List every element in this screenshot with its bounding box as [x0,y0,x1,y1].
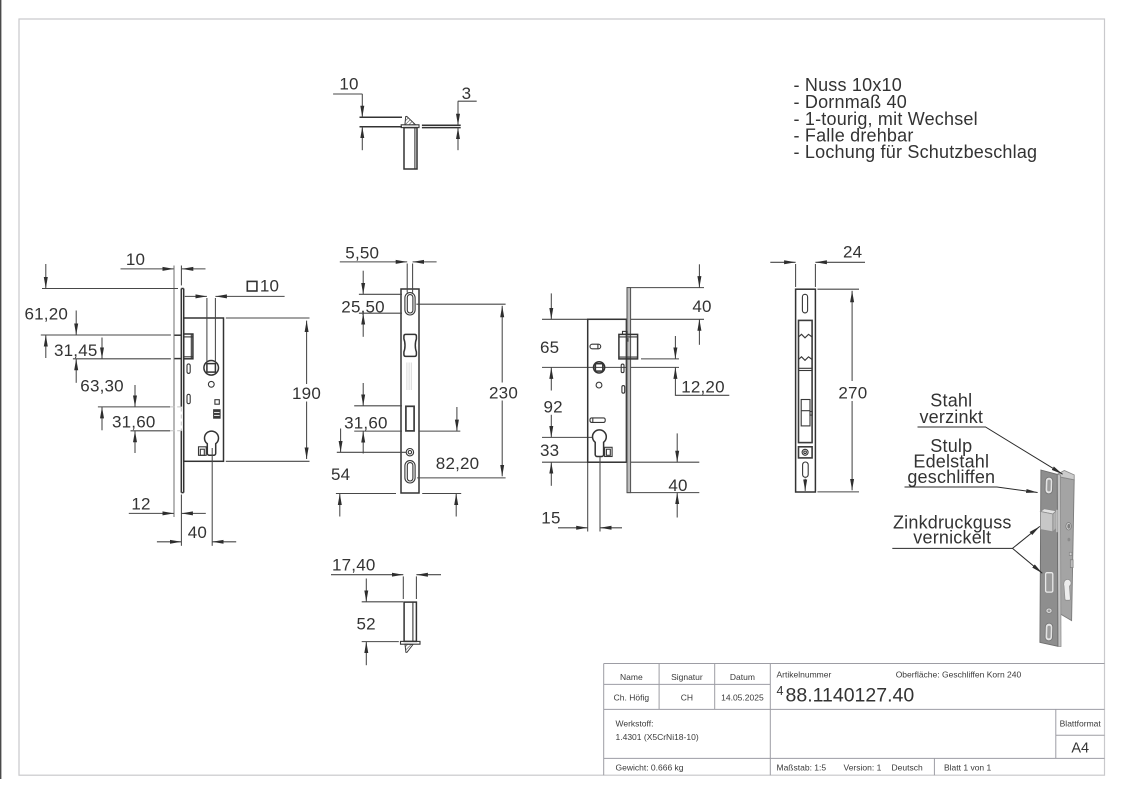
faceplate top extension line [627,287,704,289]
dim 190 line upper [306,321,308,384]
follower center line [542,366,679,368]
svg-text:Blattformat: Blattformat [1060,719,1102,729]
dim 230 line lower [501,401,503,477]
faceplate face extension line [180,495,182,546]
svg-text:17,40: 17,40 [332,555,376,574]
svg-text:Version: 1: Version: 1 [844,763,882,773]
latch bottom extension line [641,358,679,360]
door face line lower left [360,126,403,128]
lower horizontal slot [590,418,605,423]
svg-text:88.1140127.40: 88.1140127.40 [786,685,915,707]
svg-text:33: 33 [540,441,559,460]
dim 3 arrows [457,101,459,125]
small box right of cylinder [605,447,613,456]
row line above weight row [604,757,1105,759]
svg-text:Ch. Höfig: Ch. Höfig [614,693,650,703]
screw slot upper [187,364,190,374]
dim 65 arrows [550,293,552,319]
column line blattformat cell [1055,709,1057,758]
screw hole inner [408,451,411,454]
3d latch block front face [1041,512,1053,532]
dim 270 line upper [851,291,853,381]
3d latch block top face [1041,509,1057,514]
title block left line [603,664,605,776]
latch top notch [623,331,628,334]
svg-text:54: 54 [331,465,350,484]
line under blattformat label [1056,734,1105,736]
extension line 31,60 bottom [131,430,171,432]
dim 17,40 lines [331,574,403,576]
svg-text:Artikelnummer: Artikelnummer [777,670,832,680]
latch opening [404,334,417,356]
case split lines [799,367,813,369]
faceplate edge bar [627,288,631,493]
dim 12 lines [129,512,174,514]
dim 230 extension bottom [417,477,506,479]
dim 190 line lower [306,402,308,460]
dim 230 extension top [416,303,505,305]
dim 10 arrows [361,94,363,117]
3d keyhole on body [1064,579,1071,600]
latch bolt protruding part [174,334,181,336]
dim square-10 symbol [247,281,257,291]
body left extension line [587,463,589,532]
dim 190 extension top [226,317,310,319]
latch housing rect bottom view [404,602,416,641]
dim 92 bottom arrow [550,415,552,438]
3d body top face [1057,471,1074,480]
top screw slot inner [407,295,413,313]
dim 40 top arrows [698,264,700,287]
screw slot lower [187,394,190,403]
dim 270 line lower [851,401,853,490]
svg-text:40: 40 [692,297,711,316]
svg-text:vernickelt: vernickelt [913,528,991,548]
flange plate [401,641,421,644]
body bottom extension line [542,461,699,463]
title block outer top line [604,663,1105,665]
column line name/signatur [658,664,660,710]
leader zinkdruckguss underline [892,547,1012,549]
screw box circle [802,449,808,455]
3d latch slot on plate edge [1056,510,1058,532]
dim 61,20 arrows [45,264,47,289]
svg-text:Gewicht: 0.666 kg: Gewicht: 0.666 kg [616,763,684,773]
svg-text:52: 52 [357,614,376,633]
svg-text:230: 230 [489,383,518,402]
top reference line (faceplate top extended) [42,288,178,290]
small square detail [215,400,219,405]
svg-text:Deutsch: Deutsch [892,763,923,773]
dim 270 extension top [817,288,859,290]
dim 82,20 top arrow [456,407,458,431]
body top extension line [542,318,704,320]
latch housing rect [404,128,417,169]
faceplate screw slot upper [621,364,624,373]
svg-text:CH: CH [681,693,693,703]
follower circle [594,362,605,373]
dim 10 leader underline [333,93,362,95]
svg-text:10: 10 [126,250,145,269]
3d follower hole on body [1066,523,1071,530]
screw box [799,447,813,458]
top screw slot outer [405,293,415,315]
svg-text:12,20: 12,20 [681,378,725,397]
svg-text:Maßstab: 1:5: Maßstab: 1:5 [777,763,827,773]
dim 31,45 arrows [75,311,77,336]
3d lower rect hole [1046,573,1053,592]
svg-text:- Lochung für Schutzbeschlag: - Lochung für Schutzbeschlag [794,142,1038,162]
svg-text:190: 190 [292,384,321,403]
break wave lower [799,357,813,361]
dim 15 lines [558,527,588,529]
svg-text:Datum: Datum [730,672,755,682]
latch bolt head behind plate [184,334,193,359]
dim 31,60 arrows [134,385,136,407]
door face line upper left [360,116,403,118]
break wave upper [799,334,813,338]
svg-text:Oberfläche: Geschliffen Korn: Oberfläche: Geschliffen Korn 240 [896,670,1022,680]
dim 24 lines [770,261,795,263]
upper horizontal slot [590,344,601,349]
latch bolt head inner lines [184,336,193,338]
3d small hole on body [1068,538,1071,542]
left screen edge line [0,0,2,779]
dim 25,50 extension lines [359,293,402,295]
svg-text:verzinkt: verzinkt [919,407,983,427]
rectangular opening [406,406,414,431]
extension line 31,60 top [98,406,170,408]
latch tip hatched [405,116,416,124]
faceplate bottom cap [181,492,183,494]
3d bottom slot [1045,623,1053,641]
svg-text:24: 24 [843,243,862,262]
screw hole center extension line [337,451,406,453]
dim 54 top arrow [340,429,342,453]
latch front long extension line [173,266,175,518]
dim 40 lines [157,541,182,543]
bottom screw slot [803,462,809,477]
dim 52 top extension [362,601,404,603]
latch bottom extension line [73,358,171,360]
3d faceplate side sliver [1057,474,1061,646]
svg-text:92: 92 [544,398,563,417]
svg-text:31,60: 31,60 [344,413,388,432]
3d latch block side face [1053,511,1056,532]
latch top extension line [41,334,171,336]
svg-text:Signatur: Signatur [671,672,703,682]
3d screw hole [1046,608,1052,613]
follower circle [204,361,219,376]
3d body right face [1058,477,1075,621]
cylinder center line [542,436,593,438]
lock body rectangle [184,318,224,461]
bottom screw slot inner [407,463,413,481]
leader stulp [905,487,1038,493]
svg-text:geschliffen: geschliffen [907,467,995,487]
follower square 10x10 [207,364,216,373]
svg-text:Blatt 1 von 1: Blatt 1 von 1 [944,763,992,773]
dim 31,60 extension lines [354,405,402,407]
svg-text:63,30: 63,30 [80,377,124,396]
stulp strip outline [796,289,816,492]
dim square-10 lines [185,295,207,297]
dim 52 bottom arrow [365,642,367,666]
svg-text:61,20: 61,20 [25,304,69,323]
lock body rectangle [588,319,627,462]
svg-text:1.4301 (X5CrNi18-10): 1.4301 (X5CrNi18-10) [616,732,699,742]
svg-text:270: 270 [838,383,867,402]
screw hole outer [406,449,413,456]
svg-text:Werkstoff:: Werkstoff: [616,719,654,729]
svg-text:A4: A4 [1071,741,1089,757]
svg-text:Name: Name [620,672,643,682]
dim 3 leader underline [458,100,477,102]
svg-text:3: 3 [462,84,472,103]
svg-text:65: 65 [540,338,559,357]
latch tip hatched [405,644,413,652]
svg-text:31,60: 31,60 [112,412,156,431]
3d faceplate front face [1040,470,1058,646]
leader stahl verzinkt [918,427,1063,474]
euro cylinder hole [593,430,607,457]
dim 52 top arrow [365,579,367,602]
faceplate top cap [181,288,183,290]
stulp strip outline [401,289,419,493]
svg-text:5,50: 5,50 [345,243,379,262]
small hole under follower [596,382,602,388]
cylinder axis extension line [211,448,213,546]
3d top slot [1045,477,1053,494]
svg-text:14.05.2025: 14.05.2025 [721,693,764,703]
small hole under follower [208,381,214,387]
latch bolt [619,334,638,359]
faceplate screw slot lower [622,386,625,394]
dim 12,20 arrows [674,336,676,359]
svg-text:40: 40 [188,523,207,542]
svg-text:31,45: 31,45 [54,341,98,360]
leader zinkdruckguss to rect hole [1013,548,1043,573]
strip bottom extension lines [336,493,396,495]
dim 63,30 arrows [101,338,103,359]
svg-text:10: 10 [339,75,358,94]
dim 54 bottom arrow [339,494,341,517]
flange plate [401,125,419,128]
brushed hint lines [406,363,408,391]
svg-text:4: 4 [777,684,784,698]
dim 12,20 leader [675,383,729,396]
dim 190 extension bottom [226,460,310,462]
dim 270 extension bottom [817,491,859,493]
row line under header [604,683,771,685]
row line under values [604,708,1105,710]
follower square [595,364,602,371]
3d small square on body [1069,552,1072,555]
euro cylinder hole [205,431,219,455]
overlay lines right [422,124,461,126]
dim 230 line upper [501,306,503,383]
leader zinkdruckguss to latch [1013,526,1040,548]
small box left of cylinder [199,447,207,456]
gear box [801,400,810,426]
dim 5,50 lines [340,261,407,263]
cylinder axis line [599,457,601,532]
column line before blatt cell [933,758,935,775]
latch plate notch detail [626,338,628,342]
dim 82,20 bottom arrow [455,494,457,517]
inner case box [799,320,813,442]
svg-text:15: 15 [541,509,560,528]
svg-text:40: 40 [668,476,687,495]
dim 10 lines and arrows [121,268,175,270]
gear stack detail [214,410,221,419]
top screw slot [802,294,807,313]
bottom screw slot outer [405,461,415,483]
svg-text:82,20: 82,20 [436,454,480,473]
dim 40 bottom arrows [676,433,678,462]
dim 31,60 arrows [362,383,364,406]
dim 52 bottom extension [362,641,399,643]
3d gear mark on body [1070,560,1073,568]
faceplate hidden dashed section [180,408,182,431]
faceplate edge left segments [180,289,182,407]
dim 33 bottom arrow [550,462,552,486]
svg-text:10: 10 [260,276,279,295]
bottom center arrow [804,479,806,491]
dim 25,50 arrows [362,271,364,295]
svg-text:12: 12 [131,495,150,514]
column line signatur/datum [714,664,716,710]
column line datum/artikelnummer [769,664,771,776]
faceplate bottom extension line [627,492,700,494]
